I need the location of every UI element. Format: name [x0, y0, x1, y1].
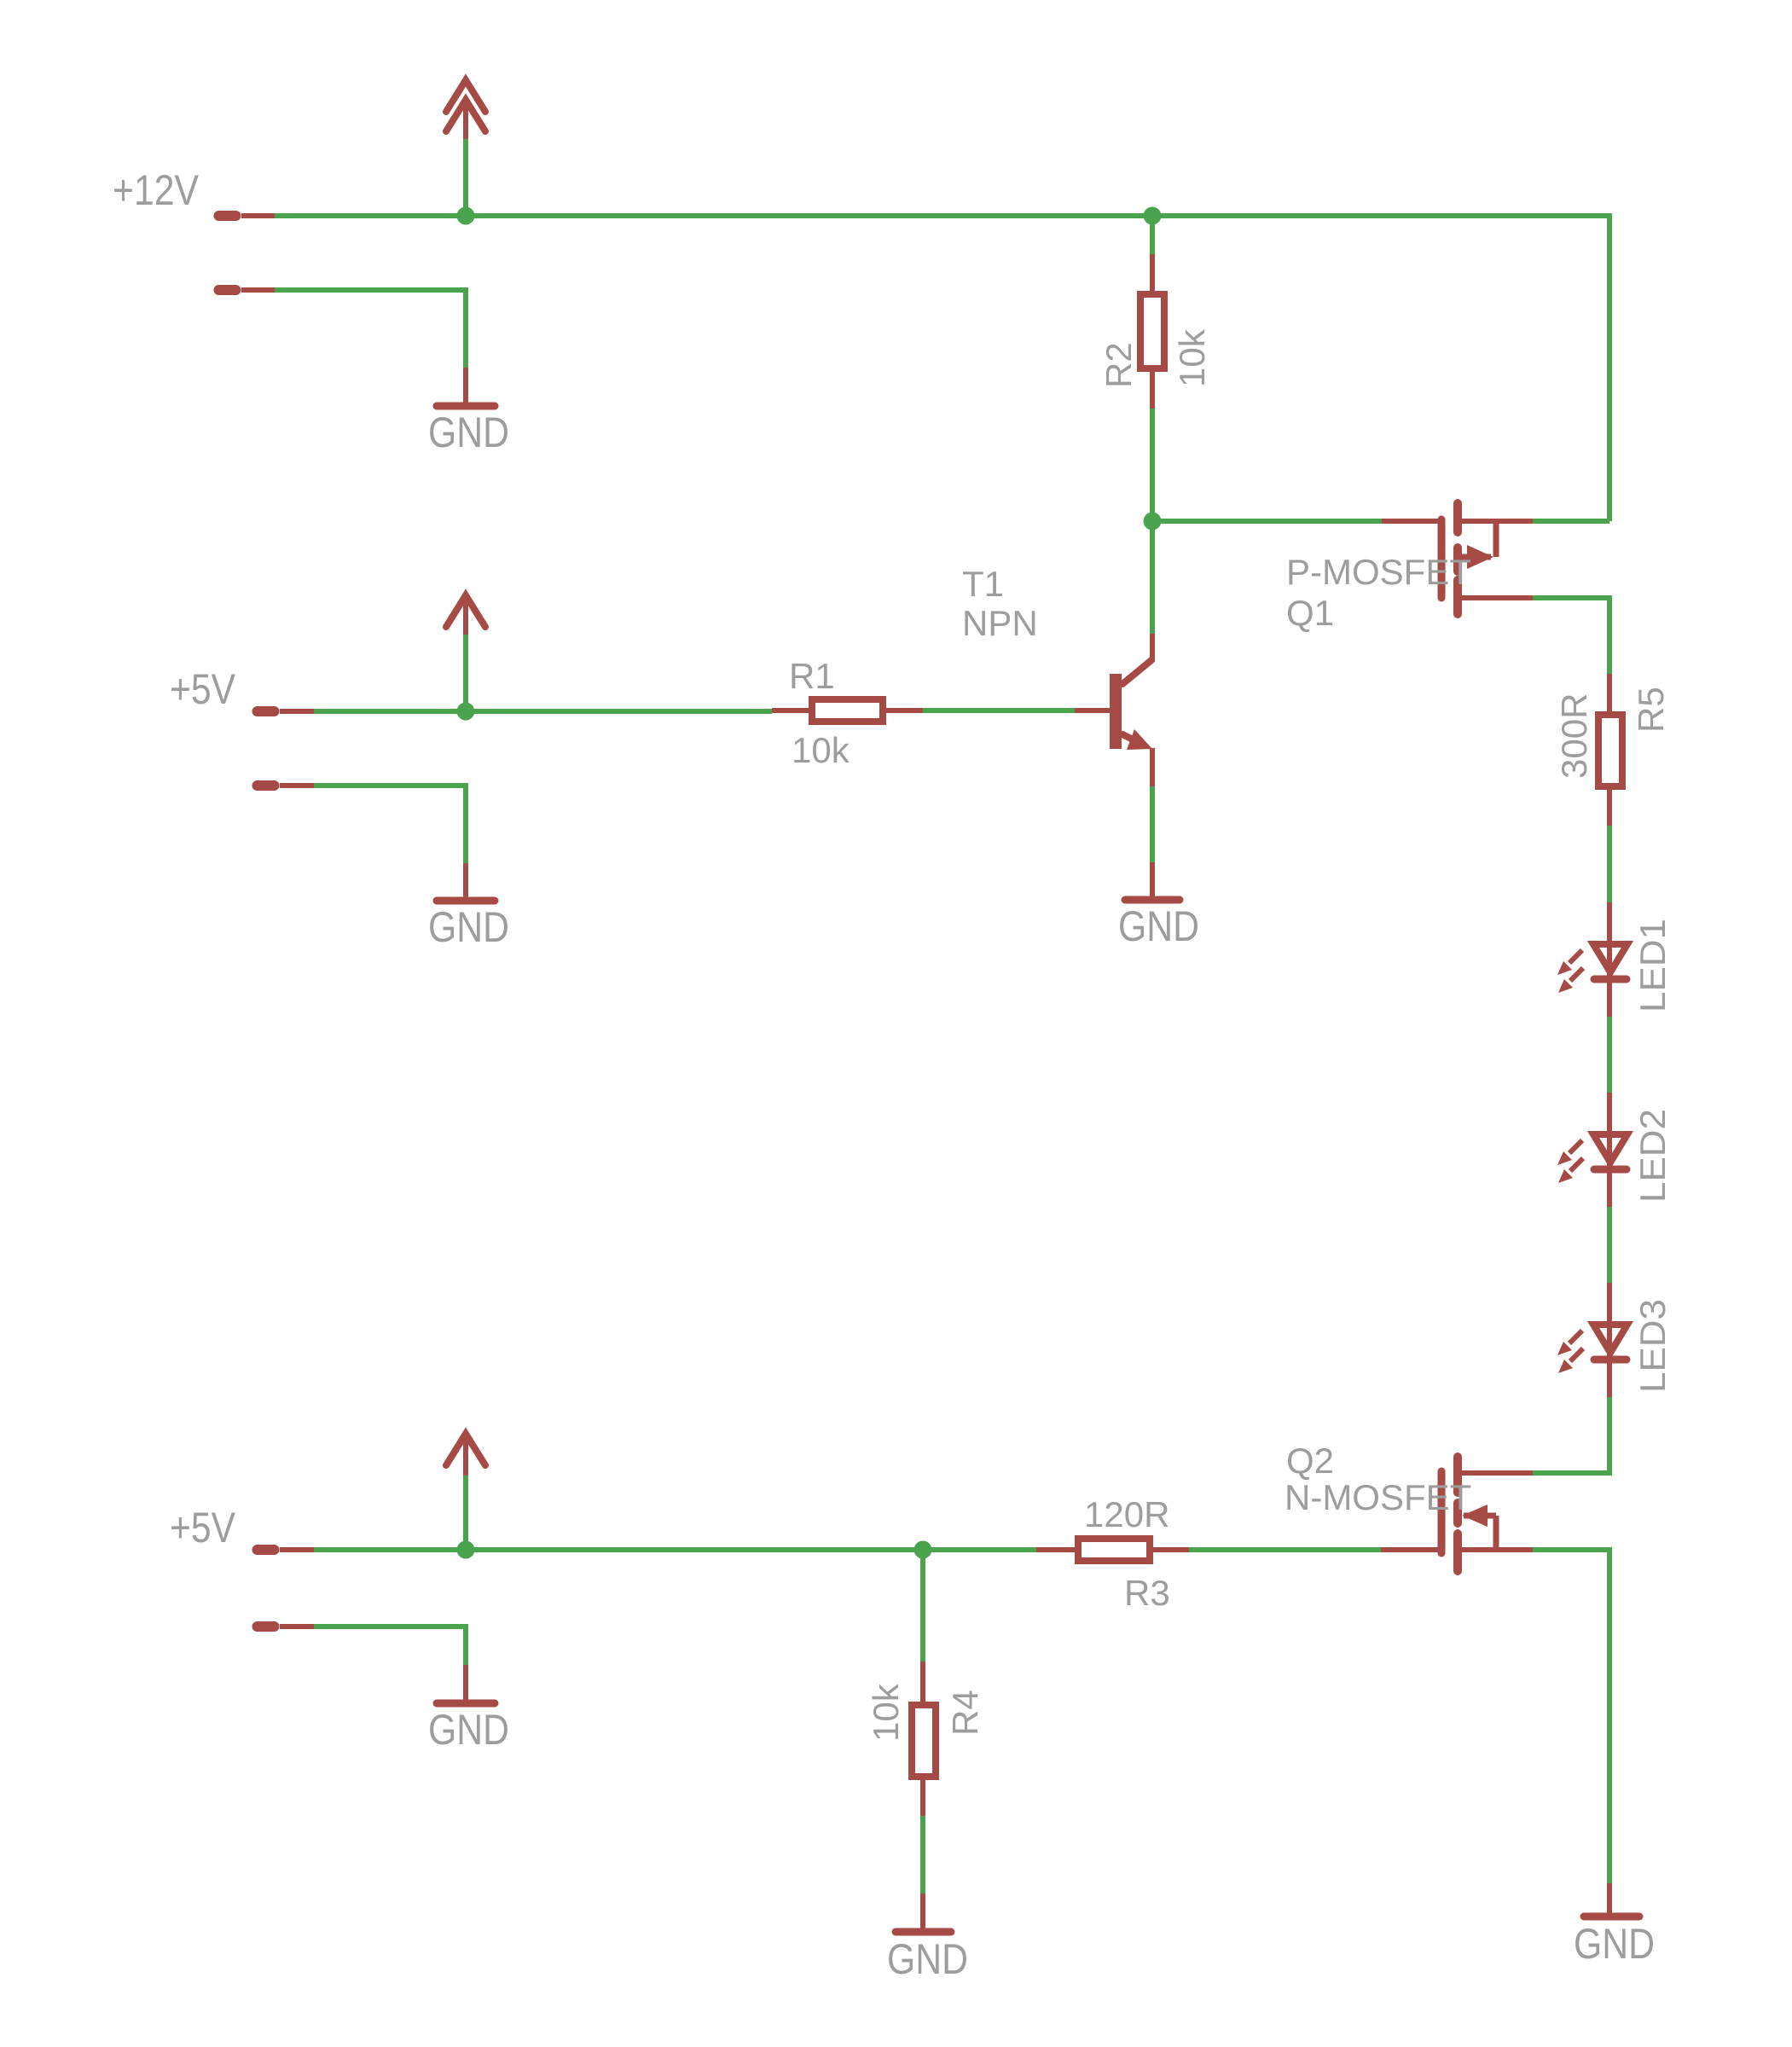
wire Q2 source to GND rail	[1533, 1550, 1609, 1883]
supply symbol +12V	[446, 80, 485, 139]
resistor R4	[912, 1661, 936, 1816]
svg-text:R2: R2	[1099, 342, 1139, 388]
wire R4 to GND	[920, 1816, 925, 1893]
wire T1 emitter	[1150, 786, 1155, 862]
svg-text:P-MOSFET: P-MOSFET	[1286, 552, 1471, 592]
wire +5V bottom supply stem	[463, 1476, 468, 1550]
pin +5V bottom input	[258, 1545, 315, 1555]
ground GND T1	[1118, 862, 1199, 950]
transistor Q1 P-MOSFET	[1441, 503, 1533, 614]
svg-text:Q1: Q1	[1286, 593, 1334, 633]
pin GND input group2	[258, 780, 315, 791]
svg-text:10k: 10k	[866, 1683, 906, 1742]
pin GND input group3	[258, 1621, 315, 1632]
transistor T1 NPN	[1075, 660, 1152, 750]
junction R4 node	[914, 1541, 932, 1559]
wire Q1 drain to rail	[1533, 598, 1609, 674]
diode LED2	[1557, 1093, 1627, 1207]
wire GND group2	[314, 786, 466, 863]
svg-text:+5V: +5V	[170, 1504, 236, 1551]
wire LED2 to LED3	[1607, 1207, 1612, 1283]
svg-text:GND: GND	[1574, 1920, 1655, 1968]
svg-text:+5V: +5V	[170, 665, 236, 713]
transistor Q2 N-MOSFET	[1441, 1457, 1533, 1571]
wire +5V middle supply stem	[463, 635, 468, 711]
junction +5V bottom	[457, 1541, 475, 1559]
wire Q2 drain to rail	[1533, 1470, 1609, 1476]
ground GND group3	[428, 1665, 509, 1754]
svg-text:GND: GND	[428, 903, 509, 951]
wire +12V rail right	[1152, 216, 1609, 521]
wire R1 to T1 base	[923, 708, 1075, 713]
supply symbol +5V bottom	[446, 1434, 485, 1476]
junction +5V middle	[457, 703, 475, 721]
wire R5 to LED1	[1607, 826, 1612, 902]
wire +12V rail middle	[466, 213, 1152, 218]
svg-text:R1: R1	[789, 656, 835, 696]
svg-text:Q2: Q2	[1286, 1441, 1334, 1481]
wire R3 to Q2 gate	[1189, 1547, 1381, 1552]
wire LED1 to LED2	[1607, 1017, 1612, 1093]
wire R4 node to R3	[923, 1547, 1036, 1552]
junction gate node	[1144, 513, 1162, 531]
wire gate node to Q1	[1152, 519, 1382, 524]
svg-text:300R: 300R	[1554, 693, 1594, 779]
wire +5V bottom left	[314, 1547, 466, 1552]
ground GND group2	[428, 863, 509, 951]
lead Q2 gate	[1381, 1547, 1441, 1552]
junction +12V at R2	[1144, 207, 1162, 225]
wire GND group3	[314, 1627, 466, 1665]
svg-text:120R: 120R	[1084, 1494, 1169, 1534]
ground GND R4	[887, 1893, 968, 1983]
pin +5V middle input	[258, 706, 315, 716]
supply symbol +5V middle	[446, 595, 485, 635]
wire R2 to gate node	[1150, 409, 1155, 521]
svg-text:10k: 10k	[792, 730, 850, 770]
wire GND group1	[275, 290, 466, 368]
wire T1 collector	[1150, 521, 1155, 634]
resistor R1	[772, 699, 923, 722]
resistor R2	[1140, 216, 1164, 409]
wire +12V rail left	[275, 213, 466, 218]
pin +12V input	[219, 211, 275, 221]
svg-text:R5: R5	[1631, 687, 1671, 733]
svg-text:10k: 10k	[1172, 328, 1212, 387]
svg-text:LED2: LED2	[1633, 1109, 1673, 1203]
svg-text:T1: T1	[962, 564, 1004, 604]
wire LED3 to Q2 drain	[1533, 1397, 1609, 1473]
svg-text:GND: GND	[887, 1935, 968, 1983]
svg-text:N-MOSFET: N-MOSFET	[1285, 1477, 1471, 1517]
resistor R3	[1036, 1539, 1189, 1561]
svg-text:GND: GND	[1118, 902, 1199, 950]
svg-text:NPN: NPN	[962, 603, 1038, 643]
svg-text:LED3: LED3	[1633, 1299, 1673, 1393]
lead T1 collector	[1150, 634, 1155, 662]
op Q1 gate lead	[1382, 519, 1441, 524]
wire +5V bottom to R4 node	[466, 1547, 923, 1552]
junction +12V left	[457, 207, 475, 225]
ground GND group1	[428, 368, 509, 456]
wire +5V middle left	[314, 709, 466, 714]
diode LED1	[1557, 902, 1627, 1017]
lead T1 emitter	[1150, 748, 1155, 786]
wire Q1 source to rail	[1533, 519, 1609, 524]
svg-text:R3: R3	[1124, 1573, 1170, 1613]
wire R4 node down	[920, 1550, 925, 1661]
svg-text:R4: R4	[945, 1690, 985, 1736]
pin GND input group1	[219, 285, 275, 295]
svg-text:GND: GND	[428, 1706, 509, 1754]
svg-text:+12V: +12V	[113, 166, 200, 214]
svg-text:GND: GND	[428, 409, 509, 456]
ground GND Q2	[1574, 1883, 1655, 1968]
svg-text:LED1: LED1	[1633, 919, 1673, 1012]
diode LED3	[1557, 1283, 1627, 1397]
resistor R5	[1598, 674, 1622, 826]
wire +5V middle to R1	[466, 709, 772, 714]
wire +12V supply stem	[463, 139, 468, 216]
